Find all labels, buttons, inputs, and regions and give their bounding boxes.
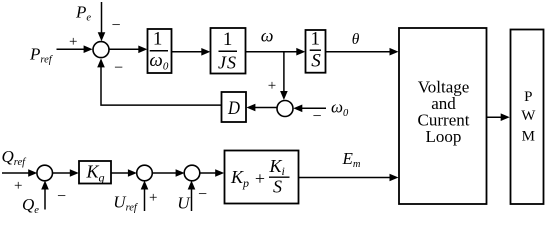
svg-text:+: + [69, 34, 77, 50]
summing junction S4 [137, 165, 153, 181]
svg-text:M: M [522, 128, 535, 144]
summing junction S2 [277, 101, 293, 117]
block Kp + Ki/S [225, 151, 299, 204]
plus sign at S1 input [69, 34, 77, 50]
plus sign at U_ref input [149, 190, 157, 206]
minus sign at U input [198, 186, 207, 203]
minus sign at Q_e input [57, 188, 66, 205]
wire branch from omega down to summing junction S2 [280, 52, 288, 100]
wire U up into S5 [188, 181, 196, 212]
wire S4 to summing junction S5 [152, 169, 185, 177]
wire Pref into summing junction S1 [57, 45, 93, 53]
wire block 1/JS to block 1/S with branch node [246, 48, 306, 56]
svg-text:S: S [273, 177, 282, 197]
summing junction S3 [37, 165, 53, 181]
svg-text:Loop: Loop [426, 127, 462, 146]
label Q_e [22, 195, 39, 216]
label omega_0 [331, 98, 349, 119]
plus sign at S2 top input [268, 78, 276, 94]
svg-text:−: − [114, 60, 123, 77]
svg-text:+: + [268, 78, 276, 94]
wire S3 to block Kq [52, 169, 79, 177]
wire Voltage loop to PWM [487, 113, 510, 121]
block 1/w0 [148, 28, 172, 73]
svg-text:ω: ω [261, 26, 274, 46]
wire Q_e up into S3 [41, 181, 49, 210]
svg-text:−: − [313, 108, 322, 125]
label Q_ref [2, 147, 28, 168]
wire block 1/S to Voltage and Current Loop [326, 48, 399, 56]
svg-text:1: 1 [310, 29, 320, 50]
svg-text:+: + [149, 190, 157, 206]
label U_ref [113, 192, 139, 213]
block PWM [511, 30, 544, 205]
svg-text:+: + [14, 178, 22, 194]
minus sign at S1 bottom input [114, 60, 123, 77]
svg-text:−: − [198, 186, 207, 203]
svg-text:W: W [521, 108, 536, 124]
block D [222, 92, 247, 122]
summing junction S5 [184, 165, 200, 181]
minus sign at P_e input [112, 17, 121, 34]
label omega [261, 26, 274, 46]
svg-text:P: P [524, 89, 532, 105]
wire S2 to block D [246, 104, 276, 112]
wire P_e down into S1 [98, 2, 106, 41]
svg-text:D: D [227, 98, 240, 119]
label P_ref [29, 45, 54, 66]
svg-text:S: S [311, 51, 321, 72]
svg-text:U: U [177, 194, 191, 213]
label P_e [75, 3, 91, 24]
wire S5 to PI block [200, 169, 225, 177]
svg-text:−: − [57, 188, 66, 205]
plus sign at S3 input [14, 178, 22, 194]
wire U_ref up into S4 [141, 181, 149, 212]
svg-text:1: 1 [153, 28, 163, 49]
wire Kq to summing junction S4 [111, 169, 137, 177]
summing junction S1 [93, 42, 109, 58]
wire omega0 into S2 [293, 105, 326, 113]
wire Qref into summing junction S3 [2, 169, 37, 177]
block Voltage and Current Loop [399, 28, 487, 204]
svg-text:1: 1 [223, 29, 233, 50]
svg-text:+: + [255, 169, 265, 189]
svg-text:θ: θ [352, 31, 360, 48]
block 1/JS [211, 28, 246, 74]
block Kq [79, 161, 111, 185]
label U [177, 194, 191, 213]
svg-text:JS: JS [218, 53, 237, 73]
minus sign at omega0 input [313, 108, 322, 125]
block 1/S [306, 29, 326, 73]
wire S1 to block 1/w0 [109, 46, 147, 54]
svg-text:−: − [112, 17, 121, 34]
label E_m [342, 149, 361, 170]
label theta [352, 31, 360, 48]
wire D feedback to S1 bottom [97, 58, 221, 105]
wire E_m from PI block to Voltage and Current Loop [299, 174, 399, 182]
wire block 1/w0 to block 1/JS [172, 48, 211, 56]
